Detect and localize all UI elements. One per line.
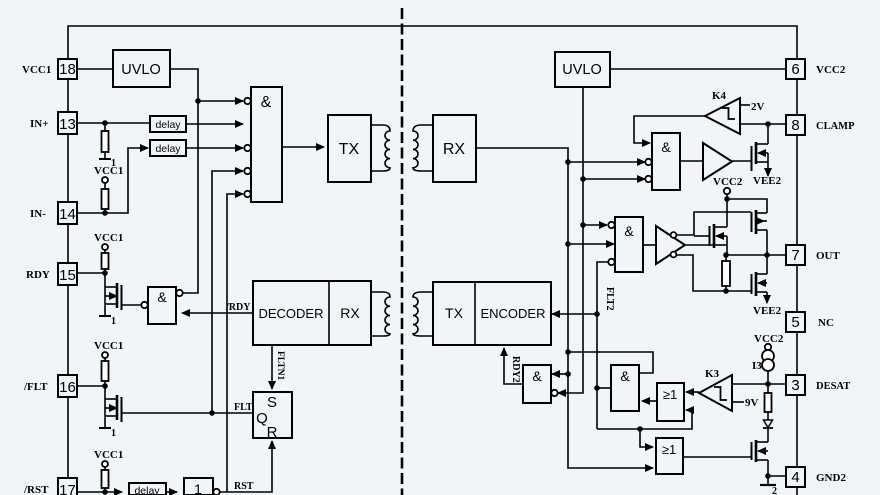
node /RST [102,489,108,495]
svg-text:TX: TX [445,305,464,321]
wire FLT2 to out-and in3 [597,262,608,429]
pin 7 [786,245,805,265]
svg-text:RDY2: RDY2 [510,356,521,383]
svg-text:VCC1: VCC1 [94,449,123,461]
supply terminal VCC2 (desat) [754,333,784,350]
rdy and gate U3 [148,287,176,324]
svg-text:5: 5 [791,314,799,331]
package outline left rail [67,59,69,490]
svg-text:8: 8 [791,117,799,134]
node UVLO/AND1 [195,98,201,104]
node CLAMP [765,121,771,127]
svg-text:VCC2: VCC2 [816,64,846,76]
svg-text:TX: TX [339,141,360,158]
svg-text:NC: NC [818,317,834,329]
wire /RDY decoder to rdy-and [182,312,253,314]
svg-text:&: & [620,368,630,384]
svg-text:VCC1: VCC1 [22,64,51,76]
buffer amp B1 [703,143,732,180]
transformer T1 secondary [413,125,433,171]
svg-text:/FLT: /FLT [23,381,48,393]
delay block 1 [150,116,186,132]
wire Q3 source to VEE2 arrow [767,162,769,176]
wire delay2 to AND in3 [186,147,243,149]
bubble clamp-and in3 [645,176,651,182]
svg-text:&: & [157,289,167,305]
isolation barrier dashed line [401,8,404,495]
or gate OR1 [657,383,684,421]
out and gate U6 [615,217,643,272]
wire pin18 to UVLO [77,68,113,70]
bubble rdy-and in1 [176,290,182,296]
current source I3 [752,350,774,372]
svg-text:RDY: RDY [26,269,50,281]
svg-text:FLTN1: FLTN1 [275,351,285,380]
svg-text:K4: K4 [712,90,727,102]
wire pin13 to delay1 [77,122,150,124]
pin 5 [786,312,805,332]
wire RST buffer to flip-flop R [220,441,272,492]
supply terminal VCC1 (/FLT pullup) [94,340,123,358]
svg-text:delay: delay [155,119,181,131]
comparator K4 [705,90,740,134]
resistor R7 [765,384,772,420]
bubble rdy-and output [141,302,147,308]
svg-text:RX: RX [340,305,360,321]
node A-desat [565,349,571,355]
pin 3 [786,375,805,395]
inverting bubble AND in3 [244,145,250,151]
node DESAT [765,381,771,387]
transistor Q6 (pull-down) [752,255,768,296]
TX block (upper channel) [328,115,371,182]
wire FLT2 horizontal [597,410,692,429]
pin 15 [58,263,77,285]
svg-text:DESAT: DESAT [816,381,850,392]
bubble T2 top output [671,232,677,238]
wire OUT node [727,254,786,256]
node FLT2-desat-and [594,385,600,391]
wire pin14 to delay2 [77,148,148,213]
pin 13 [58,112,77,134]
svg-text:delay: delay [134,485,160,495]
ground 1 [99,158,116,169]
svg-text:IN+: IN+ [30,118,49,130]
buffer gate 1 [184,478,213,495]
svg-text:CLAMP: CLAMP [816,121,855,132]
wire FLT flip-flop Q to /FLT driver [122,412,253,414]
svg-text:VEE2: VEE2 [753,175,782,187]
bubble out-and in3 [608,259,614,265]
wire pin16 to node [77,385,105,387]
svg-text:1: 1 [111,428,116,439]
RX block (upper channel) [433,115,476,182]
svg-text:17: 17 [59,482,76,495]
svg-text:&: & [261,94,272,111]
resistor R6 [722,255,730,291]
wire UVLO2 down line B [558,87,583,393]
wire rdy-and output to Q1 gate [122,304,141,306]
wire I3 to DESAT node [767,371,769,384]
svg-text:≥1: ≥1 [663,387,677,402]
comparator K3 [699,368,732,411]
UVLO block U2 [113,50,170,87]
node OUT-b [764,252,770,258]
wire K3 in from DESAT node [732,383,768,385]
svg-text:VCC2: VCC2 [713,176,743,188]
node RDY [102,270,108,276]
node IN- [102,210,108,216]
desat and gate U8 [611,365,639,411]
svg-text:OUT: OUT [816,250,841,262]
node GND2 [765,473,771,479]
transistor Q2 (/FLT open drain) [105,386,122,428]
inverting bubble AND in4 [244,168,250,174]
wire or1 output to desat-and in2 [642,400,657,402]
svg-text:VCC1: VCC1 [94,165,123,177]
node FLT/AND4 [209,410,215,416]
svg-text:6: 6 [791,61,799,78]
pin 6 [786,59,805,79]
node A-clamp [565,159,571,165]
svg-text:/RST: /RST [23,484,49,495]
wire RST to AND in5 [227,194,243,492]
or gate OR2 [656,438,683,474]
svg-text:R: R [267,424,278,441]
supply terminal VCC1 (IN- pullup) [94,165,123,183]
wire FLT2 to or2 in1 [640,429,653,447]
resistor R1 [102,123,109,159]
wire pin17 to delay3 [77,491,122,493]
wire T2 tip output to Q4 source [685,244,714,246]
svg-text:16: 16 [59,379,76,396]
wire UVLO output to AND input 1 [170,69,198,293]
pin 8 [786,115,805,135]
pin 18 [58,59,77,79]
diode D1 [763,420,773,441]
svg-text:1: 1 [111,316,116,327]
node resistor bottom [723,288,729,294]
pin 14 [58,202,77,224]
wire rdy2-and output to encoder [504,348,523,384]
svg-text:14: 14 [59,206,76,223]
svg-text:3: 3 [791,377,799,394]
svg-text:UVLO: UVLO [562,62,602,78]
inverting bubble AND in1 [244,98,250,104]
ground 1 (Q1 source) [99,316,116,327]
transistor Q3 (clamp) [752,124,769,171]
resistor R4 [102,358,109,386]
pin 16 [58,375,77,397]
wire T2 top output to gates [677,212,751,235]
svg-text:2: 2 [772,486,777,495]
node FLT2-encoder [594,311,600,317]
svg-text:&: & [532,368,542,384]
wire DESAT node to pin3 [768,383,786,385]
transistor Q7 (desat discharge) [752,440,769,476]
pin 17 [58,478,77,495]
bubble T2 bottom output [671,252,677,258]
clamp and gate U5 [652,133,680,190]
bubble clamp-and in2 [645,159,651,165]
wire to or1 in2 arrow [686,409,692,411]
svg-text:4: 4 [791,469,799,486]
node /FLT [102,383,108,389]
wire pin15 to node [77,272,105,274]
pin 4 [786,467,805,487]
svg-text:UVLO: UVLO [121,62,161,78]
wire GND2 node to pin4 [768,475,786,477]
svg-text:18: 18 [59,61,76,78]
wire or2 output to Q7 gate [683,456,751,458]
svg-text:7: 7 [791,247,799,264]
node B-clamp [580,176,586,182]
rdy2 and gate U7 [523,365,551,403]
wire K4 ref 2V [740,104,750,106]
node A-rdy2 [565,371,571,377]
wire delay1 to AND in2 [186,123,243,125]
transistor Q4 (source follower) [694,224,727,255]
wire UVLO2 output to pin6 [610,68,786,70]
bubble rdy2-and in2 [551,390,557,396]
ground 2 [760,476,777,495]
wire VCC2 down [726,194,728,227]
svg-text:15: 15 [59,267,76,284]
svg-text:VCC1: VCC1 [94,340,123,352]
ground 1 (Q2 source) [99,428,116,439]
wire FLT2 to encoder [552,313,597,315]
wire B to out-and in1 [583,224,607,226]
transformer T2 primary [371,292,390,336]
svg-text:FLT2: FLT2 [604,287,615,311]
TX ENCODER block [433,282,551,345]
svg-text:RX: RX [443,141,466,158]
wire delay3 to buffer [166,491,177,493]
wire A to out-and in2 [568,243,614,245]
wire A to desat-and path [568,352,653,373]
svg-text:&: & [661,139,671,155]
svg-text:VEE2: VEE2 [753,305,782,317]
node A-out [565,241,571,247]
and gate U1 (input AND) [251,87,282,202]
supply terminal VCC1 (RDY pullup) [94,232,123,250]
svg-text:&: & [624,223,634,239]
wire desat-and output to FLT2 [597,387,611,389]
wire T2 bottom output to pulldown path [677,255,751,291]
svg-text:ENCODER: ENCODER [480,306,545,321]
wire AND output to TX [282,146,324,148]
wire VCC2 to Q4 drain [727,199,767,213]
node B-out [580,222,586,228]
supply terminal VCC1 (/RST pullup) [94,449,123,467]
package outline right rail [796,59,798,495]
wire RX output line A [476,148,653,468]
resistor R2 [102,183,109,213]
UVLO block U4 (secondary) [555,52,610,87]
delay block 3 [129,483,166,495]
driver triangle T2 [656,226,685,264]
wire K3 output to or1 in1 [686,391,699,393]
wire K3 ref 9V [732,401,744,403]
DECODER RX block [253,281,371,345]
node IN+ [102,120,108,126]
wire A to clamp-and in2 [568,161,645,163]
transistor Q1 (RDY open drain) [105,273,122,316]
resistor R3 [102,250,109,273]
svg-text:S: S [267,394,277,411]
svg-text:VCC1: VCC1 [94,232,123,244]
wire FLT to AND in4 [212,171,243,413]
wire out-and output to T2 [643,244,656,246]
svg-text:DECODER: DECODER [258,306,323,321]
wire B to clamp-and in3 [583,178,645,180]
wire A to rdy2-and in1 [552,373,568,375]
bubble out-and in1 [608,222,614,228]
transistor Q5 (pull-up) [752,210,768,255]
svg-text:/RDY: /RDY [225,302,251,313]
wire Q6 source to VEE2 arrow [766,292,768,303]
wire FLTN1 decoder to S input [271,345,273,389]
svg-text:K3: K3 [705,368,720,380]
wire K4 feedback to clamp-and in1 [634,116,705,143]
node OUT-a [723,252,729,258]
transformer T2 secondary [413,292,433,336]
SR flip-flop [253,392,292,441]
svg-text:1: 1 [194,481,202,495]
delay block 2 [150,140,186,156]
svg-text:2V: 2V [751,101,765,113]
resistor R5 [102,467,109,492]
svg-text:13: 13 [59,116,76,133]
node VCC2 rail [724,196,730,202]
svg-text:≥1: ≥1 [662,442,676,457]
svg-text:RST: RST [234,481,254,492]
svg-text:I3: I3 [752,360,762,372]
wire K4 in to CLAMP node [740,123,786,125]
svg-text:FLT: FLT [234,402,253,413]
svg-text:9V: 9V [745,397,759,409]
wire to AND in1 [198,100,243,102]
wire clamp-and output to buffer [680,160,703,162]
supply terminal VCC2 (driver) [713,176,743,194]
wire B1 output to Q3 gate [732,160,751,162]
package outline top border wire [68,26,797,59]
transformer T1 primary [371,125,390,171]
node FLT2-lower [637,426,643,432]
bubble buffer output [213,489,219,495]
inverting bubble AND in5 [244,191,250,197]
svg-text:IN-: IN- [30,208,46,220]
svg-text:GND2: GND2 [816,472,846,484]
svg-text:delay: delay [155,143,181,155]
